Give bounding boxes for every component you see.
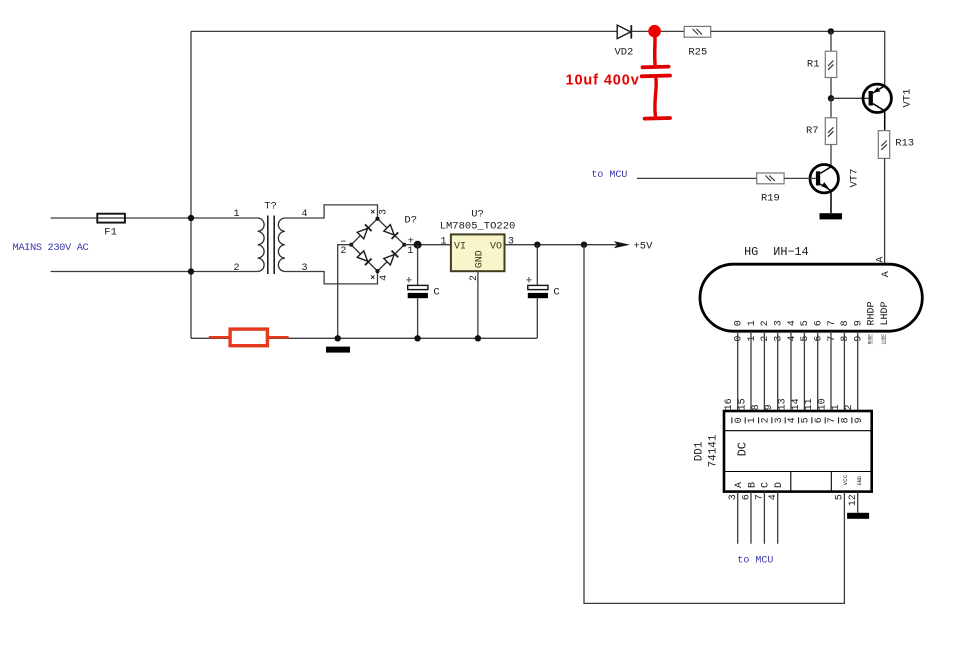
svg-text:C: C <box>433 287 439 299</box>
diode bridge top-right <box>384 225 398 239</box>
wire mains line top <box>51 217 258 219</box>
diode VD2 <box>614 25 633 59</box>
svg-text:3: 3 <box>508 236 514 247</box>
ground symbol DD1 <box>847 513 869 519</box>
svg-text:8: 8 <box>751 404 762 410</box>
junction mains bottom <box>188 268 194 274</box>
wire bridge plus to regulator <box>404 244 451 246</box>
svg-text:2: 2 <box>761 417 772 423</box>
wire +5V rail to DD1 vcc <box>584 245 844 604</box>
svg-text:R19: R19 <box>761 193 780 205</box>
label to MCU (top) <box>591 170 627 181</box>
wires tube cathodes to DD1 <box>738 331 858 411</box>
wire DD1 gnd pin <box>857 492 859 513</box>
svg-text:LHDP: LHDP <box>883 334 887 345</box>
resistor R7 <box>806 98 837 167</box>
wire R13 to tube anode <box>884 158 886 264</box>
transistor VT7 (NPN) <box>810 165 861 214</box>
svg-text:D: D <box>774 482 785 488</box>
transistor VT1 (PNP) <box>863 84 914 131</box>
svg-text:2: 2 <box>844 404 855 410</box>
svg-text:VO: VO <box>490 241 502 252</box>
svg-text:C: C <box>553 287 559 299</box>
svg-text:U?: U? <box>471 208 484 220</box>
junction R1 top <box>828 28 834 34</box>
svg-text:R7: R7 <box>806 125 819 137</box>
svg-text:R25: R25 <box>688 47 707 59</box>
svg-text:1: 1 <box>747 417 758 423</box>
svg-text:8: 8 <box>841 417 852 423</box>
wire mains line bottom <box>51 271 258 273</box>
svg-text:RHDP: RHDP <box>867 301 878 325</box>
wire secondary pin4 to bridge <box>285 205 378 219</box>
svg-text:GND: GND <box>474 250 485 268</box>
wire regulator gnd pin <box>477 271 479 338</box>
wire top rail left segment <box>191 30 617 32</box>
svg-text:2: 2 <box>760 320 771 326</box>
svg-text:13: 13 <box>778 398 789 410</box>
fuse F1 <box>97 214 125 239</box>
svg-text:A: A <box>876 257 887 263</box>
svg-text:+: + <box>406 275 413 287</box>
svg-text:2: 2 <box>233 263 239 274</box>
svg-text:3: 3 <box>774 417 785 423</box>
wire bridge minus to ground rail <box>338 245 351 339</box>
junction bridge plus <box>414 241 422 249</box>
svg-text:4: 4 <box>379 275 390 281</box>
tube name RHDP <box>867 301 878 325</box>
DD1 pin numbers bottom <box>728 494 859 506</box>
svg-text:1: 1 <box>407 246 413 257</box>
svg-text:10: 10 <box>818 398 829 410</box>
svg-text:R13: R13 <box>895 137 914 149</box>
resistor R19 <box>757 173 784 205</box>
wire MCU to R19 <box>637 177 757 179</box>
svg-text:9: 9 <box>854 417 865 423</box>
DD1 pin numbers top <box>724 398 855 410</box>
svg-text:+: + <box>526 275 533 287</box>
diode bridge bottom-left <box>357 251 371 265</box>
svg-text:5: 5 <box>800 336 811 342</box>
svg-text:HGИН−14: HGИН−14 <box>744 245 809 259</box>
svg-text:5: 5 <box>800 320 811 326</box>
svg-text:4: 4 <box>787 417 798 423</box>
resistor R25 <box>684 26 711 58</box>
svg-text:2: 2 <box>340 246 346 257</box>
svg-text:R1: R1 <box>807 58 820 70</box>
svg-text:LM7805_TO220: LM7805_TO220 <box>440 220 516 232</box>
svg-text:6: 6 <box>814 417 825 423</box>
svg-text:8: 8 <box>840 336 851 342</box>
svg-text:4: 4 <box>787 320 798 326</box>
svg-text:5: 5 <box>801 417 812 423</box>
svg-text:A: A <box>734 482 745 488</box>
transformer T? <box>233 200 307 274</box>
svg-text:T?: T? <box>264 200 277 212</box>
svg-text:1: 1 <box>440 236 446 247</box>
wire R19 to VT7 base <box>784 177 816 179</box>
tube pin RHDP tiny <box>869 334 873 345</box>
junction red HV node <box>648 25 661 38</box>
tube pin A number <box>876 257 887 263</box>
svg-text:9: 9 <box>854 320 865 326</box>
svg-text:B: B <box>747 482 758 488</box>
wire left vertical bus <box>190 31 192 338</box>
tube pin numbers 0-9 <box>734 336 865 342</box>
svg-text:6: 6 <box>814 336 825 342</box>
bridge rectifier D? <box>349 214 417 273</box>
svg-text:vcc: vcc <box>842 474 849 485</box>
resistor R1 <box>807 31 837 98</box>
svg-text:0: 0 <box>734 417 745 423</box>
junction input cap at rail <box>414 335 420 341</box>
svg-text:16: 16 <box>724 398 735 410</box>
svg-text:74141: 74141 <box>707 434 719 467</box>
diode bridge bottom-right <box>384 251 398 265</box>
svg-text:1: 1 <box>747 320 758 326</box>
svg-text:4: 4 <box>787 336 798 342</box>
svg-text:1: 1 <box>747 336 758 342</box>
junction mains top <box>188 215 194 221</box>
tube pin A name <box>881 271 892 277</box>
wire top rail right segment <box>711 31 885 85</box>
DD1 power names vcc GND <box>842 474 863 485</box>
svg-text:RHDP: RHDP <box>869 334 873 345</box>
svg-text:VT7: VT7 <box>849 169 861 188</box>
svg-text:10uf 400v: 10uf 400v <box>566 72 640 88</box>
DD1 output names 0-9 with overbar <box>732 417 865 423</box>
junction R1/R7/VT1 base <box>828 95 834 101</box>
svg-text:0: 0 <box>734 336 745 342</box>
IC DD1 74141 <box>693 411 871 492</box>
ground symbol at rail <box>326 347 350 353</box>
svg-text:0: 0 <box>734 320 745 326</box>
resistor red inrush (no ref) <box>209 329 289 346</box>
power arrow +5V <box>614 240 653 252</box>
label MAINS 230V AC <box>13 242 89 254</box>
ground symbol VT7 <box>820 213 843 219</box>
svg-text:3: 3 <box>774 320 785 326</box>
regulator U? LM7805_TO220 <box>440 208 516 281</box>
svg-text:11: 11 <box>804 398 815 410</box>
junction regulator gnd at rail <box>475 335 481 341</box>
svg-text:C: C <box>761 482 772 488</box>
tube pin LHDP tiny <box>883 334 887 345</box>
svg-text:+5V: +5V <box>634 240 654 252</box>
svg-text:A: A <box>881 271 892 277</box>
resistor R13 <box>878 131 914 159</box>
nixie tube HG ИН-14 <box>700 245 922 331</box>
svg-text:GND: GND <box>857 476 863 485</box>
wire top rail mid segment <box>632 30 684 32</box>
svg-text:F1: F1 <box>104 227 117 239</box>
svg-text:VI: VI <box>454 241 466 252</box>
svg-text:2: 2 <box>760 336 771 342</box>
svg-text:VT1: VT1 <box>902 89 914 108</box>
junction +5V down <box>581 242 587 248</box>
ground rail bottom <box>191 337 537 339</box>
capacitor C output <box>526 245 560 339</box>
wire regulator output <box>505 244 618 246</box>
svg-text:9: 9 <box>764 404 775 410</box>
label 10uf 400v <box>566 72 640 88</box>
svg-text:3: 3 <box>378 209 389 215</box>
svg-text:7: 7 <box>827 320 838 326</box>
label to MCU (bottom) <box>737 556 773 567</box>
svg-text:1: 1 <box>233 209 239 220</box>
svg-text:7: 7 <box>827 336 838 342</box>
bridge pin labels <box>340 209 414 281</box>
wire secondary pin3 to bridge <box>285 271 378 284</box>
svg-text:7: 7 <box>827 417 838 423</box>
svg-text:14: 14 <box>791 398 802 410</box>
wire VT1 base <box>831 97 869 99</box>
DD1 input names A B C D <box>734 482 785 488</box>
svg-text:VD2: VD2 <box>614 47 633 59</box>
svg-text:9: 9 <box>854 336 865 342</box>
junction output cap <box>534 242 540 248</box>
svg-text:to MCU: to MCU <box>591 170 627 181</box>
tube cathode names 0-9 <box>734 320 865 326</box>
svg-text:D?: D? <box>404 214 417 226</box>
svg-text:to MCU: to MCU <box>737 556 773 567</box>
svg-text:DD1: DD1 <box>693 441 705 461</box>
svg-text:1: 1 <box>831 404 842 410</box>
svg-text:DC: DC <box>736 442 750 456</box>
tube name LHDP <box>880 301 891 325</box>
svg-text:MAINS 230V AC: MAINS 230V AC <box>13 242 89 254</box>
svg-text:6: 6 <box>814 320 825 326</box>
capacitor C input <box>406 245 440 339</box>
wires DD1 inputs to MCU <box>738 492 778 544</box>
capacitor red 10uf 400v (hand drawn) <box>642 33 670 119</box>
svg-text:3: 3 <box>774 336 785 342</box>
svg-text:8: 8 <box>840 320 851 326</box>
svg-text:LHDP: LHDP <box>880 301 891 325</box>
svg-text:15: 15 <box>738 398 749 410</box>
junction ground rail at bridge <box>335 335 341 341</box>
svg-text:3: 3 <box>302 263 308 274</box>
diode bridge top-left <box>357 224 371 238</box>
